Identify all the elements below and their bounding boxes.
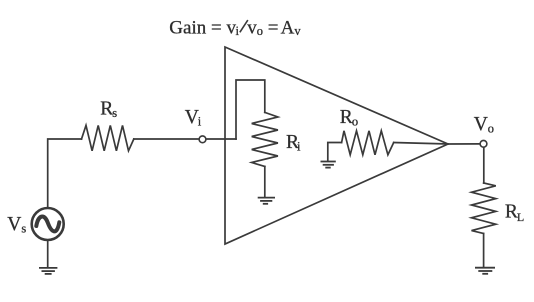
label RI <box>286 132 301 154</box>
resistor RI <box>252 112 278 166</box>
ground (RI) <box>259 198 275 204</box>
svg-text:Gain = vi: Gain = vi <box>169 18 239 39</box>
wire source-up <box>48 139 82 208</box>
svg-text:Ro: Ro <box>340 107 358 129</box>
node Vo (open circle) <box>480 140 487 147</box>
label RL <box>505 202 524 224</box>
wire apex to node Vo <box>448 143 480 145</box>
resistor RS <box>82 125 134 150</box>
resistor RL <box>472 183 496 234</box>
svg-text:RL: RL <box>505 202 524 224</box>
title label Gain = vi/vo = Av <box>169 18 301 39</box>
wire step up to RI <box>236 80 265 139</box>
label VS <box>7 214 26 236</box>
ground (RL) <box>476 268 494 274</box>
svg-text:Vi: Vi <box>185 107 202 129</box>
svg-text:Vo: Vo <box>474 114 494 136</box>
resistor RO <box>342 131 394 155</box>
svg-text:vo = Av: vo = Av <box>247 18 301 39</box>
op-amp amplifier triangle <box>225 47 448 244</box>
label RS <box>100 98 117 120</box>
wire RO to apex <box>394 143 448 145</box>
svg-text:Rs: Rs <box>100 98 117 120</box>
node Vi (open circle) <box>199 136 206 143</box>
wire RS to node Vi <box>134 138 199 140</box>
wire RL to ground <box>483 234 485 267</box>
label Vi <box>185 107 202 129</box>
svg-text:Ri: Ri <box>286 132 301 154</box>
ground (VS) <box>40 268 57 274</box>
svg-text:Vs: Vs <box>7 214 26 236</box>
wire node Vo down to RL <box>483 148 485 183</box>
wire RI to ground <box>264 167 266 197</box>
wire node Vi to step <box>206 138 236 140</box>
ground (RO) <box>321 162 335 168</box>
wire source to ground <box>47 241 49 268</box>
voltage source VS <box>32 208 64 240</box>
wire ground stub to RO <box>328 143 342 161</box>
label RO <box>340 107 358 129</box>
label Vo <box>474 114 494 136</box>
